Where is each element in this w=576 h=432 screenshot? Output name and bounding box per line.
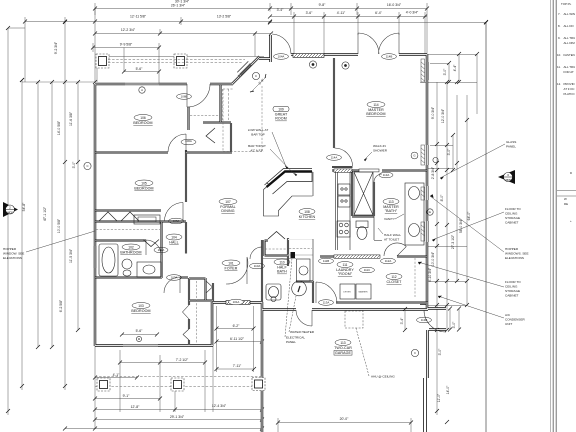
formal dining 107	[219, 199, 237, 205]
svg-text:47'-1 1/2": 47'-1 1/2"	[43, 206, 47, 221]
svg-text:FLOOR TO: FLOOR TO	[505, 207, 521, 211]
top dimension row 1	[95, 3, 427, 15]
svg-text:20'-0": 20'-0"	[340, 417, 349, 421]
top dimension row 2 left	[25, 17, 270, 390]
front door unit hatched	[226, 54, 324, 305]
garage side entry alcove	[427, 309, 446, 330]
svg-text:"BATH": "BATH"	[385, 209, 398, 213]
svg-text:27'-3 1/2": 27'-3 1/2"	[451, 234, 455, 249]
foyer coat closet walls	[265, 238, 289, 266]
cabinet hatch laundry wall	[334, 255, 380, 258]
svg-text:3'-0": 3'-0"	[438, 348, 442, 356]
svg-text:BAR TOP: BAR TOP	[251, 133, 264, 137]
foyer coat closet walls	[265, 238, 289, 266]
hall to master wall	[332, 166, 353, 168]
garage 113	[335, 340, 351, 346]
svg-text:CEILING: CEILING	[505, 212, 518, 216]
front wall right wing	[291, 53, 427, 56]
half bath fixtures	[266, 284, 281, 302]
svg-text:113A: 113A	[323, 301, 330, 305]
circled letters	[84, 61, 438, 357]
svg-text:11'-5 3/4": 11'-5 3/4"	[69, 248, 73, 263]
svg-text:CONDENSER: CONDENSER	[505, 318, 526, 322]
annotations with leaders	[248, 128, 404, 379]
svg-text:ROOM: ROOM	[275, 117, 287, 121]
svg-text:3'-0": 3'-0"	[452, 321, 456, 329]
svg-text:8'-0": 8'-0"	[440, 194, 444, 202]
top right sub-row	[270, 3, 427, 54]
kitchen 108	[299, 209, 315, 215]
svg-text:LOW WALL AT: LOW WALL AT	[248, 128, 269, 132]
interior walls inner white	[95, 58, 428, 345]
eave line right wing	[270, 23, 486, 432]
svg-text:12'-4 3/4": 12'-4 3/4"	[212, 404, 227, 408]
svg-text:2'-8 3/4": 2'-8 3/4"	[431, 166, 435, 179]
halfbath left wall / foyer right	[261, 240, 263, 302]
svg-text:9'-0 3/4": 9'-0 3/4"	[431, 106, 435, 119]
svg-text:10'-0 5/8": 10'-0 5/8"	[57, 218, 61, 233]
washer dryer	[340, 284, 371, 299]
closet103 walls	[189, 278, 213, 345]
svg-text:WATER HEATER: WATER HEATER	[290, 330, 315, 334]
svg-text:12'-2 3/4": 12'-2 3/4"	[121, 28, 136, 32]
bedroom106/105 divider	[95, 152, 232, 154]
svg-text:64'-0": 64'-0"	[467, 211, 471, 220]
svg-text:HOPPER: HOPPER	[505, 247, 519, 251]
svg-text:107: 107	[225, 200, 231, 204]
svg-text:5'-6": 5'-6"	[136, 329, 144, 333]
door laundry 111	[316, 282, 337, 303]
second closet box	[288, 239, 313, 241]
kitchen counters and appliances	[264, 172, 351, 281]
svg-text:ELEVATIONS: ELEVATIONS	[505, 256, 524, 260]
bedroom105 right wall	[185, 150, 187, 202]
svg-text:TOP PL: TOP PL	[561, 2, 572, 6]
right wall	[426, 54, 429, 378]
master bath 113	[383, 199, 399, 205]
svg-text:4'-11": 4'-11"	[337, 11, 346, 15]
top dimension row 3 left	[95, 29, 271, 57]
halfbath door	[250, 247, 262, 259]
svg-text:111: 111	[342, 263, 347, 267]
svg-text:FLOOR TO: FLOOR TO	[505, 280, 521, 284]
elevation marker left	[3, 202, 18, 217]
closet 106 walls	[189, 85, 232, 152]
svg-text:5'-6": 5'-6"	[136, 67, 144, 71]
svg-text:13'-2 5/8": 13'-2 5/8"	[217, 15, 232, 19]
dimension texts bottom	[113, 324, 349, 421]
svg-text:101: 101	[228, 261, 234, 265]
bedroom105 closet chevrons	[99, 212, 139, 221]
bath102 right wall	[160, 222, 162, 278]
svg-text:BEDROOM: BEDROOM	[366, 112, 385, 116]
garage right wall lower	[424, 378, 427, 432]
svg-text:ALL DIM: ALL DIM	[564, 41, 576, 45]
svg-text:C: C	[86, 164, 88, 168]
bedroom 106	[134, 115, 152, 121]
garage left wall	[261, 302, 263, 432]
diagonal wall dining	[232, 57, 260, 85]
svg-text:ALL DO: ALL DO	[564, 24, 575, 28]
master bedroom left wall	[333, 58, 335, 148]
svg-text:BAR TOP AT: BAR TOP AT	[248, 144, 266, 148]
bedroom 105	[135, 180, 153, 186]
bedroom103 right wall to porch	[211, 302, 214, 346]
closet103 walls	[189, 278, 213, 345]
bedroom105 bottom wall / closet	[95, 211, 186, 222]
svg-text:105A: 105A	[173, 219, 180, 223]
master bath top wall	[332, 170, 427, 172]
half bath 110	[274, 259, 290, 265]
shower walls	[352, 170, 374, 217]
svg-text:CABINET: CABINET	[505, 294, 519, 298]
svg-text:STORAGE: STORAGE	[505, 216, 520, 220]
foyer bottom wall	[213, 301, 262, 304]
laundry left wall	[296, 281, 313, 303]
foyer bottom wall	[213, 302, 262, 304]
exterior walls inner white	[95, 35, 446, 432]
dining jog to foyer	[259, 35, 271, 62]
top wall left wing	[95, 83, 233, 86]
svg-text:111C: 111C	[364, 268, 370, 272]
svg-text:SHOWER: SHOWER	[373, 149, 388, 153]
closet 106 walls	[189, 85, 232, 152]
svg-text:113: 113	[340, 341, 345, 345]
svg-text:105: 105	[141, 181, 147, 185]
door tag ellipses	[154, 54, 432, 323]
svg-text:112A: 112A	[385, 259, 392, 263]
elevation marker right	[498, 170, 515, 184]
bottom wall bedroom 103	[95, 345, 213, 347]
electrical panel	[291, 252, 296, 258]
bedroom 103	[132, 303, 150, 309]
svg-text:11'-6 3/8": 11'-6 3/8"	[69, 111, 73, 126]
porch top-left columns and dashes	[96, 54, 264, 120]
svg-text:PANEL: PANEL	[286, 340, 296, 344]
dimension texts left (rotated)	[22, 41, 76, 312]
bath102 right wall	[161, 222, 163, 278]
svg-text:30'-1 3/4": 30'-1 3/4"	[175, 0, 190, 4]
dimension texts right (rotated)	[428, 64, 471, 402]
svg-text:BATH: BATH	[277, 270, 287, 274]
svg-text:14'-0": 14'-0"	[446, 385, 450, 394]
svg-text:9'-9 5/8": 9'-9 5/8"	[120, 43, 133, 47]
svg-text:FOYER: FOYER	[225, 267, 238, 271]
second closet box	[288, 239, 313, 241]
svg-text:12'-0 3/4": 12'-0 3/4"	[441, 108, 445, 123]
svg-text:3'-6": 3'-6"	[306, 11, 314, 15]
svg-text:BATHROOM: BATHROOM	[120, 251, 141, 255]
bathroom 102 fixtures	[99, 244, 161, 277]
svg-text:106A: 106A	[185, 139, 192, 143]
svg-text:7.: 7.	[558, 12, 561, 16]
hall to master wall	[332, 166, 353, 168]
svg-text:12'-11 5/8": 12'-11 5/8"	[130, 15, 147, 19]
svg-text:12.: 12.	[557, 82, 561, 86]
bath102 top wall	[95, 240, 146, 242]
laundry bottom wall	[336, 302, 428, 304]
garage side entry alcove	[427, 309, 446, 330]
left hopper note	[3, 231, 95, 260]
svg-text:29'-1 3/4": 29'-1 3/4"	[170, 415, 185, 419]
great room 109	[273, 107, 289, 112]
door 114A master	[335, 148, 353, 166]
master bath fixtures	[356, 183, 424, 245]
svg-text:3'-0": 3'-0"	[447, 148, 451, 156]
svg-text:9'-1": 9'-1"	[123, 394, 131, 398]
door 112A closet	[384, 243, 406, 256]
svg-text:4'-4": 4'-4"	[453, 64, 457, 72]
room labels	[120, 102, 402, 356]
bath102/bed103 divider	[95, 277, 188, 279]
svg-text:FOR AT: FOR AT	[564, 70, 574, 74]
master bath bottom / laundry top wall	[320, 256, 427, 258]
door 103A	[164, 277, 180, 293]
svg-text:9.: 9.	[558, 36, 561, 40]
svg-text:109: 109	[278, 108, 284, 112]
notes panel right edge	[551, 0, 576, 432]
halfbath left wall / foyer right	[261, 240, 263, 302]
top wall left wing	[95, 83, 233, 85]
svg-text:TWO-CAR: TWO-CAR	[334, 346, 352, 350]
svg-text:AHU @ CEILING: AHU @ CEILING	[371, 375, 395, 379]
garage bottom dim	[278, 418, 411, 432]
dimension texts top	[120, 0, 419, 71]
foyer 101	[222, 260, 240, 266]
svg-text:AT 9 OC: AT 9 OC	[564, 87, 575, 91]
window hatch units right wall	[421, 59, 425, 241]
svg-text:9'-2 3/4": 9'-2 3/4"	[54, 41, 58, 54]
svg-text:AT TOILET: AT TOILET	[384, 238, 399, 242]
svg-text:104A: 104A	[278, 55, 285, 59]
svg-text:6'-11 1/2": 6'-11 1/2"	[230, 337, 245, 341]
svg-text:HOPPER: HOPPER	[3, 247, 17, 251]
top wall small arc	[187, 84, 210, 107]
svg-text:C: C	[414, 351, 416, 355]
laundry/closet right jog	[420, 302, 428, 305]
svg-text:GARAGE: GARAGE	[335, 351, 351, 355]
svg-text:PLATFO: PLATFO	[564, 92, 576, 96]
svg-text:54'-8": 54'-8"	[22, 202, 26, 211]
svg-text:11.: 11.	[557, 65, 561, 69]
laundry 111	[337, 262, 353, 268]
master bedroom left wall	[333, 58, 335, 148]
garage right wall lower	[424, 378, 427, 432]
interior walls	[95, 58, 428, 345]
svg-text:102A: 102A	[158, 248, 165, 252]
bedroom105 bottom wall / closet	[95, 211, 186, 222]
svg-text:11'-0": 11'-0"	[437, 393, 441, 402]
svg-text:WD5: WD5	[505, 178, 511, 182]
hall 104	[166, 234, 182, 240]
svg-text:A/C: A/C	[505, 313, 511, 317]
master bath top wall	[332, 169, 427, 171]
exterior walls	[95, 35, 446, 432]
bottom rows left wing	[95, 302, 262, 432]
svg-text:102: 102	[128, 245, 134, 249]
svg-text:WD5: WD5	[7, 211, 13, 215]
svg-text:WASHER: WASHER	[358, 291, 368, 294]
svg-text:6'-4": 6'-4"	[375, 11, 383, 15]
garage small dim	[400, 307, 407, 332]
door 113A shower area	[374, 174, 382, 182]
bedroom103 right wall to porch	[211, 302, 213, 346]
svg-text:110A: 110A	[254, 264, 261, 268]
svg-text:WINDOW. SEE: WINDOW. SEE	[3, 252, 24, 256]
garage left wall	[261, 302, 264, 432]
bedroom106/105 divider	[95, 151, 232, 153]
left columns	[8, 8, 95, 415]
svg-text:6'-2": 6'-2"	[233, 324, 241, 328]
bottom porch dashes and columns	[95, 377, 265, 392]
window bands (lighter)	[94, 61, 428, 346]
svg-text:113: 113	[388, 200, 393, 204]
bottom wall bedroom 103	[95, 344, 213, 347]
svg-text:106: 106	[140, 116, 146, 120]
svg-text:DRYER: DRYER	[343, 292, 351, 294]
foyer coat closet chevron doors	[268, 232, 285, 240]
svg-text:RE: RE	[564, 202, 568, 206]
svg-text:5'-10 3/4": 5'-10 3/4"	[428, 267, 432, 282]
svg-text:WALK-IN: WALK-IN	[373, 144, 386, 148]
door 105A	[165, 203, 184, 222]
closet 112	[386, 274, 402, 280]
svg-text:106B: 106B	[181, 95, 188, 99]
svg-text:113A: 113A	[383, 173, 390, 177]
closet103 chevron doors	[183, 281, 213, 340]
svg-text:6'-2 5/8": 6'-2 5/8"	[59, 299, 63, 312]
laundry bottom wall	[336, 301, 428, 303]
svg-text:7'-2 1/2": 7'-2 1/2"	[176, 358, 189, 362]
closet106 shelf dash + bifold	[190, 115, 219, 117]
svg-text:16'-0 3/4": 16'-0 3/4"	[387, 3, 402, 7]
svg-text:A: A	[141, 88, 143, 92]
svg-text:8.: 8.	[558, 24, 561, 28]
svg-text:110: 110	[279, 260, 284, 264]
door garage side exterior	[424, 310, 446, 332]
svg-text:10'-0 3/4": 10'-0 3/4"	[431, 251, 435, 266]
svg-text:BEDROOM: BEDROOM	[133, 121, 152, 125]
master bedroom 114	[367, 102, 385, 108]
diagonal dim 3'-8	[250, 74, 266, 92]
svg-text:"ROOM": "ROOM"	[338, 272, 353, 276]
svg-text:ALL TRU: ALL TRU	[564, 65, 576, 69]
svg-text:ALL WIN: ALL WIN	[564, 12, 575, 16]
svg-text:9'-8": 9'-8"	[319, 3, 327, 7]
thin hall line	[262, 258, 296, 260]
svg-text:111B: 111B	[323, 259, 329, 263]
svg-text:101A: 101A	[233, 300, 240, 304]
svg-text:DINING: DINING	[221, 209, 234, 213]
shower X	[354, 172, 373, 215]
svg-text:HALF WALL: HALF WALL	[384, 233, 401, 237]
svg-text:STORAGE: STORAGE	[505, 289, 520, 293]
master bath bottom / laundry top wall	[320, 255, 427, 257]
svg-text:PROVID: PROVID	[564, 82, 575, 86]
svg-text:114B: 114B	[386, 55, 393, 59]
svg-text:104: 104	[171, 235, 177, 239]
svg-text:BEDROOM: BEDROOM	[134, 187, 153, 191]
svg-text:ALL TRU: ALL TRU	[564, 36, 576, 40]
svg-text:C: C	[255, 74, 257, 78]
svg-text:D: D	[570, 171, 572, 175]
right side annotations	[418, 140, 529, 326]
bathroom 102	[122, 244, 140, 250]
svg-text:103A: 103A	[171, 276, 178, 280]
laundry/closet right jog	[420, 303, 428, 305]
svg-text:7'-11": 7'-11"	[233, 364, 242, 368]
svg-text:VANITY: VANITY	[384, 217, 395, 221]
svg-text:GLASS: GLASS	[506, 140, 516, 144]
svg-text:3'-0": 3'-0"	[443, 68, 447, 76]
left wall left wing	[94, 84, 96, 346]
foyer closet door	[226, 257, 248, 284]
svg-text:10.: 10.	[557, 53, 561, 57]
linen closet V doors	[143, 240, 159, 247]
svg-text:FASTEN: FASTEN	[564, 53, 575, 57]
porch french doors	[358, 33, 379, 54]
svg-text:12'-8": 12'-8"	[131, 405, 140, 409]
svg-text:PANEL: PANEL	[506, 145, 516, 149]
svg-text:14'-0 5/8": 14'-0 5/8"	[57, 120, 61, 135]
dining jog to foyer	[259, 35, 271, 62]
svg-text:114: 114	[373, 103, 378, 107]
garage top wall	[262, 309, 428, 311]
porch dim rows	[93, 43, 159, 84]
shower walls	[352, 170, 374, 217]
door 104A foyer/porch	[272, 34, 291, 54]
svg-text:CABINET: CABINET	[505, 221, 519, 225]
svg-text:KITCHEN: KITCHEN	[299, 215, 316, 219]
door 106A	[168, 134, 186, 152]
svg-text:UNIT: UNIT	[505, 322, 512, 326]
door 102A bath	[146, 240, 161, 255]
svg-text:ELECTRICAL: ELECTRICAL	[286, 336, 305, 340]
bedroom105 right wall	[185, 150, 187, 202]
left wall left wing	[94, 84, 97, 346]
hall right wall	[185, 222, 187, 254]
svg-text:4'-0 3/4": 4'-0 3/4"	[406, 11, 419, 15]
svg-text:113B: 113B	[421, 318, 428, 322]
svg-text:CEILING: CEILING	[505, 285, 518, 289]
front wall right wing	[291, 54, 427, 56]
bath102 top wall	[95, 239, 146, 241]
svg-text:CLOSET: CLOSET	[387, 280, 403, 284]
svg-text:108: 108	[304, 210, 310, 214]
svg-text:ELEVATIONS: ELEVATIONS	[3, 256, 22, 260]
svg-text:W: W	[564, 197, 567, 201]
water heater	[292, 281, 307, 296]
AHU dashed	[345, 311, 363, 328]
hall right wall	[185, 222, 187, 254]
svg-text:103: 103	[138, 304, 144, 308]
svg-text:E: E	[429, 210, 431, 214]
right wall	[426, 54, 429, 378]
garage top wall	[262, 308, 428, 311]
svg-text:3'-4": 3'-4"	[400, 317, 404, 325]
bath102/bed103 divider	[95, 276, 188, 278]
svg-text:HALL: HALL	[169, 241, 178, 245]
diagonal wall dining	[232, 57, 260, 85]
svg-text:3'-0": 3'-0"	[72, 161, 76, 169]
svg-text:WINDOWS. SEE: WINDOWS. SEE	[505, 252, 529, 256]
svg-text:114A: 114A	[331, 156, 338, 160]
bar low wall	[264, 169, 313, 195]
svg-text:42" A.F.F.: 42" A.F.F.	[251, 149, 264, 153]
door arcs	[146, 33, 446, 340]
shower top wall hatch	[359, 169, 379, 172]
bed103 window fan circle	[136, 336, 141, 341]
